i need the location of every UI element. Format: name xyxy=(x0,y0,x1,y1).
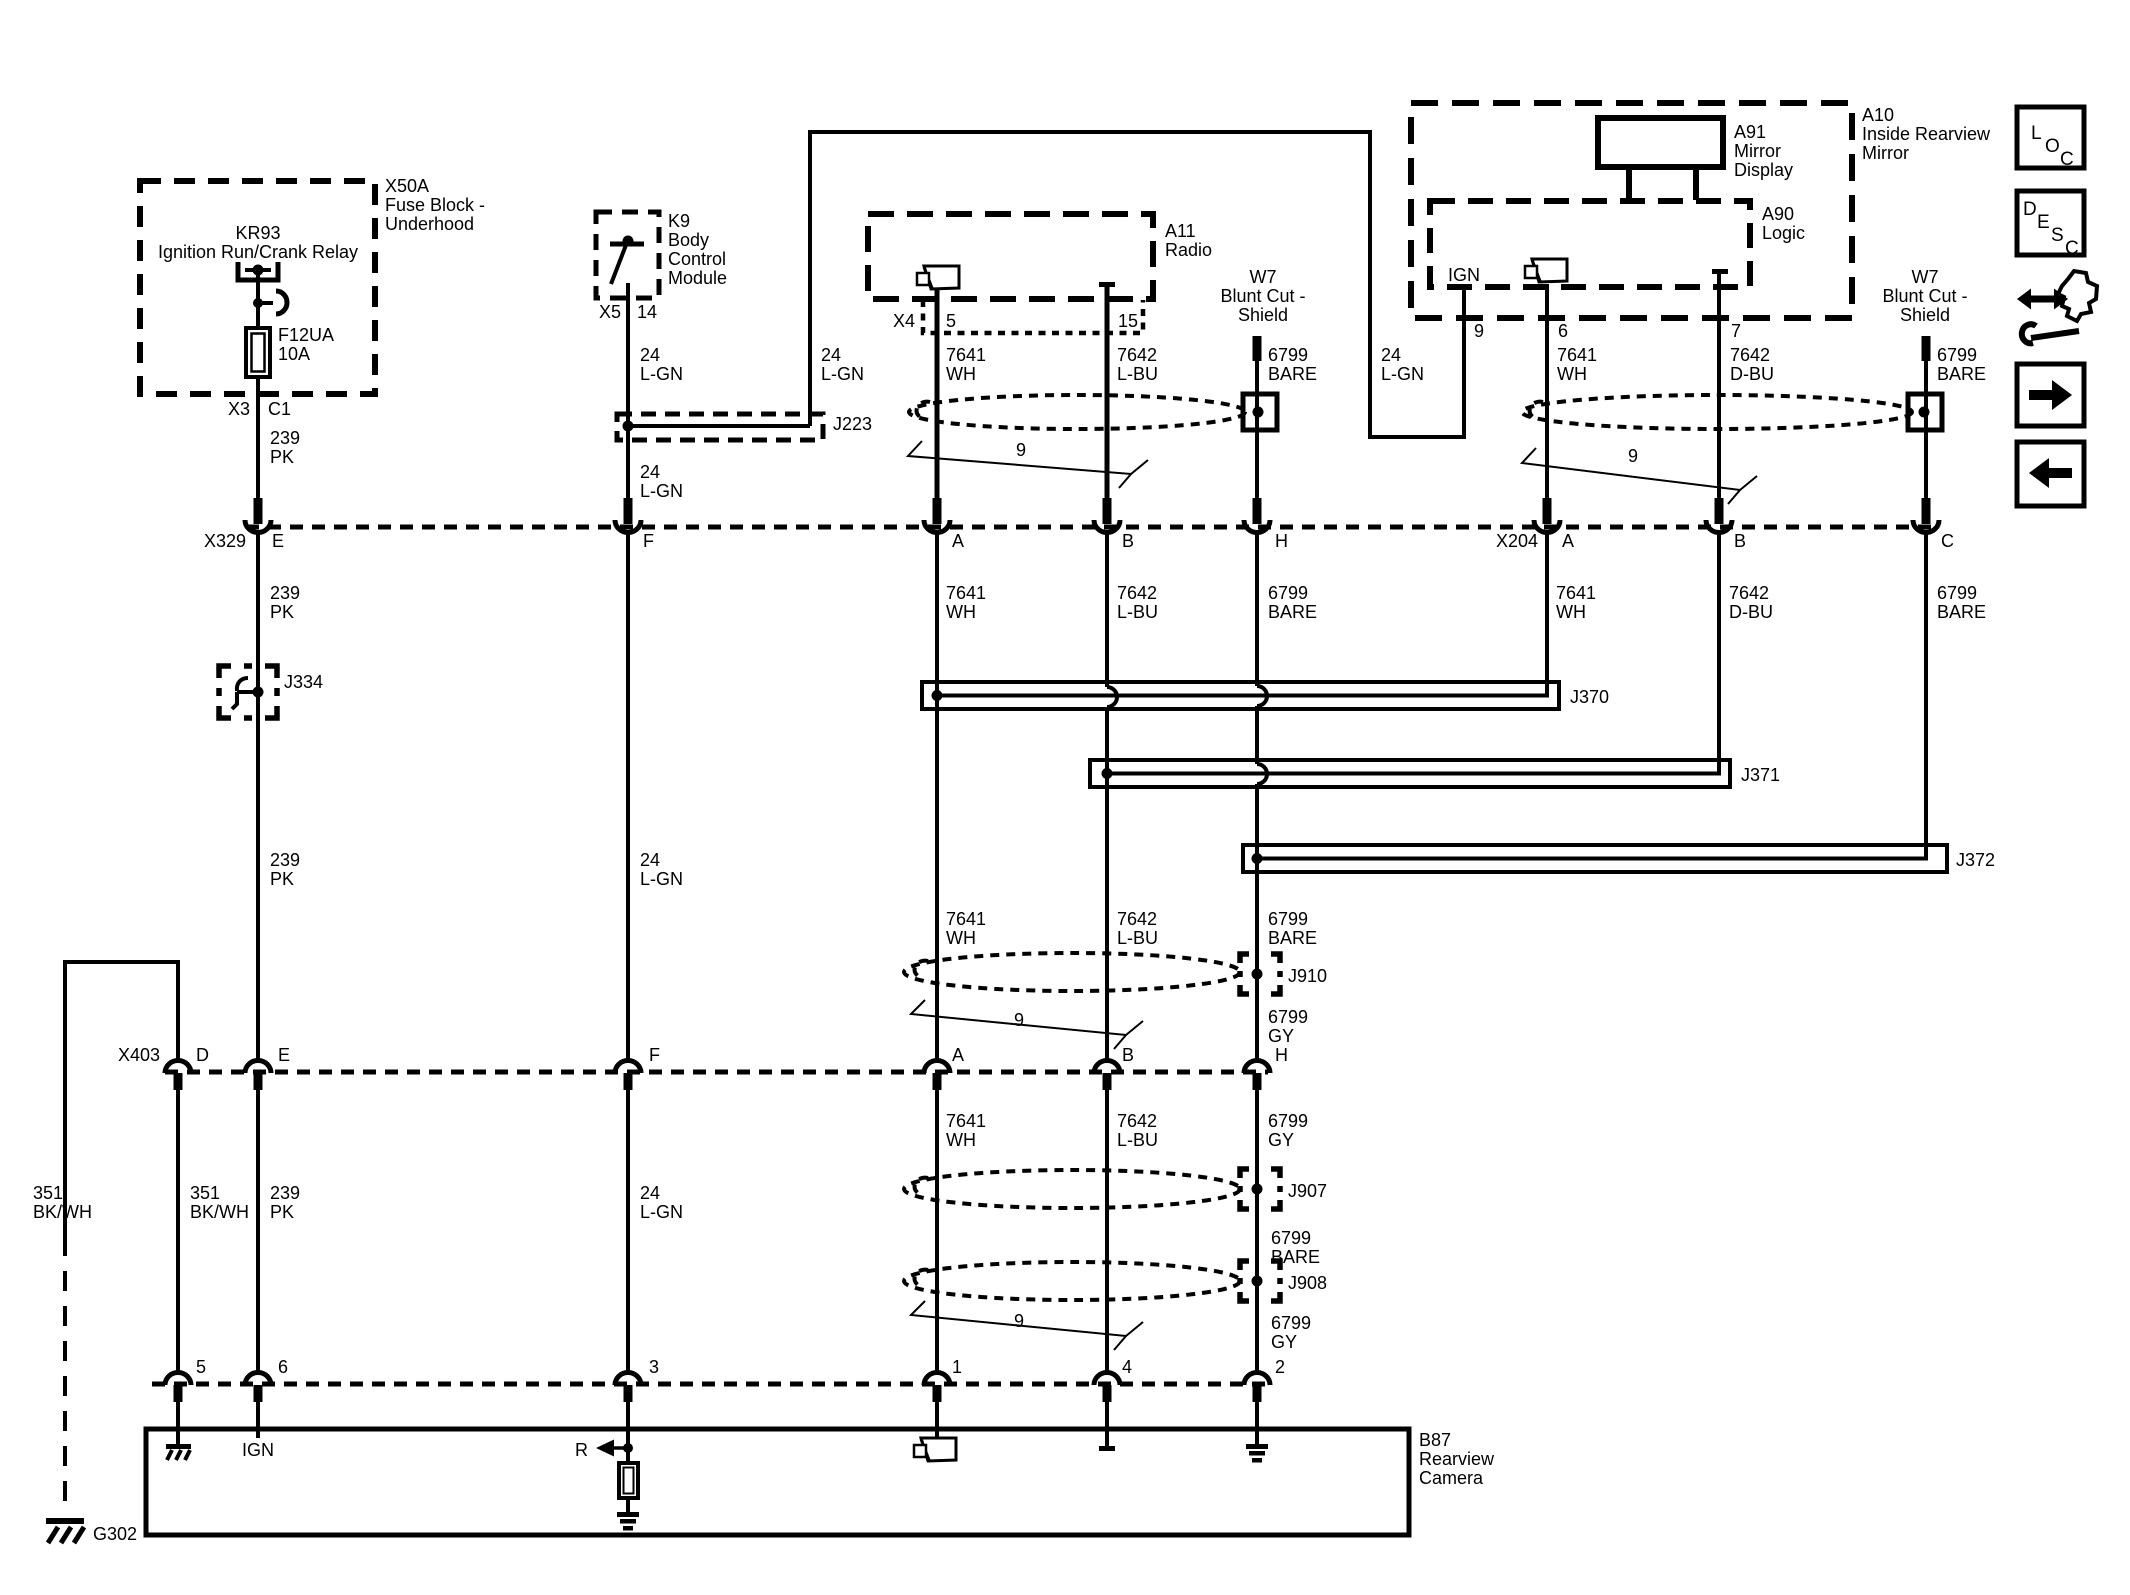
svg-text:E: E xyxy=(278,1045,290,1065)
svg-text:J910: J910 xyxy=(1288,966,1327,986)
wire pin6 into camera xyxy=(256,1400,260,1438)
svg-text:6799: 6799 xyxy=(1268,345,1308,365)
twisted pair marker 9 xyxy=(908,441,1148,488)
hop of wire H over J370 line xyxy=(1257,686,1267,706)
radio A11 dashed box xyxy=(868,214,1153,299)
wire X329-B down, hops J370 xyxy=(1105,533,1109,1060)
svg-text:Blunt Cut -: Blunt Cut - xyxy=(1882,286,1967,306)
svg-text:D-BU: D-BU xyxy=(1730,364,1774,384)
camera pin 5 xyxy=(165,1373,191,1403)
svg-text:Inside Rearview: Inside Rearview xyxy=(1862,124,1991,144)
svg-text:L-BU: L-BU xyxy=(1117,1130,1158,1150)
X403 pin H xyxy=(1244,1061,1270,1091)
wire J223 branch xyxy=(628,424,810,428)
svg-text:KR93: KR93 xyxy=(235,223,280,243)
svg-text:X403: X403 xyxy=(118,1045,160,1065)
wire X204-B to J371 xyxy=(1717,533,1721,774)
junction dot R xyxy=(623,1443,633,1453)
wire fuse to X329-E xyxy=(256,377,260,499)
X204 pin B xyxy=(1706,498,1732,533)
svg-text:24: 24 xyxy=(1381,345,1401,365)
X204 pin A xyxy=(1534,498,1560,533)
svg-text:D: D xyxy=(2023,199,2037,220)
J334 splice symbol xyxy=(237,690,258,694)
svg-text:24: 24 xyxy=(821,345,841,365)
svg-text:J372: J372 xyxy=(1956,850,1995,870)
svg-text:X3: X3 xyxy=(228,399,250,419)
X329 pin A xyxy=(924,498,950,533)
shield drain box left xyxy=(1243,394,1277,430)
W7 blunt cut stub left xyxy=(1253,336,1262,361)
svg-text:BARE: BARE xyxy=(1268,364,1317,384)
wire W7 to X329-H xyxy=(1255,360,1259,499)
svg-text:7641: 7641 xyxy=(946,909,986,929)
splice J910 corner box xyxy=(1240,954,1280,994)
svg-text:B87: B87 xyxy=(1419,1430,1451,1450)
svg-text:X204: X204 xyxy=(1496,531,1538,551)
camera symbol in A90 xyxy=(1525,259,1567,282)
svg-text:A10: A10 xyxy=(1862,105,1894,125)
wire pin4 into camera xyxy=(1105,1400,1109,1446)
svg-text:J223: J223 xyxy=(833,414,872,434)
X403 pin E xyxy=(245,1061,271,1091)
svg-text:Blunt Cut -: Blunt Cut - xyxy=(1220,286,1305,306)
svg-text:L-GN: L-GN xyxy=(640,869,683,889)
splice J907 corner box xyxy=(1240,1169,1280,1209)
rearview camera B87 box xyxy=(146,1429,1409,1535)
svg-text:24: 24 xyxy=(640,345,660,365)
svg-text:7642: 7642 xyxy=(1730,345,1770,365)
svg-text:Ignition Run/Crank Relay: Ignition Run/Crank Relay xyxy=(158,242,358,262)
camera symbol in radio xyxy=(917,266,959,289)
fuse F12UA xyxy=(246,328,270,377)
display pedestal legs xyxy=(1626,167,1632,200)
wire pin5 into camera xyxy=(176,1400,180,1444)
connector row X403 dashed line xyxy=(165,1070,1268,1075)
minus symbol in radio xyxy=(1099,282,1115,287)
svg-text:B: B xyxy=(1122,1045,1134,1065)
X329 pin E xyxy=(245,498,271,533)
svg-text:Radio: Radio xyxy=(1165,240,1212,260)
relay KR93 contact bracket xyxy=(238,262,278,280)
X403 pin B xyxy=(1094,1061,1120,1091)
svg-text:L-GN: L-GN xyxy=(640,1202,683,1222)
camera pin 4 xyxy=(1094,1373,1120,1403)
minus symbol in A90 xyxy=(1712,269,1728,274)
shield drain dot right xyxy=(1919,407,1930,418)
left ground branch wire xyxy=(65,962,178,1236)
wire top run J223 to A90 IGN xyxy=(810,132,1464,437)
twisted pair marker 9 xyxy=(911,1000,1143,1049)
svg-text:C: C xyxy=(1941,531,1954,551)
svg-text:F12UA: F12UA xyxy=(278,325,334,345)
icon arrow right box xyxy=(2017,364,2084,426)
wire A90 pin7 to X204-B xyxy=(1717,274,1721,499)
svg-text:Rearview: Rearview xyxy=(1419,1449,1495,1469)
ground symbol below resistor xyxy=(617,1512,639,1531)
svg-text:6: 6 xyxy=(1558,321,1568,341)
icon LOC box xyxy=(2017,107,2084,170)
svg-text:J908: J908 xyxy=(1288,1273,1327,1293)
svg-text:1: 1 xyxy=(952,1357,962,1377)
svg-text:C: C xyxy=(2065,238,2079,259)
wire X403-B to camera pin4 xyxy=(1105,1089,1109,1373)
svg-text:6799: 6799 xyxy=(1271,1228,1311,1248)
X403 pin D xyxy=(165,1061,191,1091)
ground symbol camera pin5 xyxy=(166,1444,191,1460)
svg-text:BARE: BARE xyxy=(1937,602,1986,622)
wire X403-D to camera pin5 xyxy=(176,1089,180,1373)
svg-text:W7: W7 xyxy=(1912,267,1939,287)
minus symbol in camera xyxy=(1099,1446,1115,1451)
svg-text:H: H xyxy=(1275,1045,1288,1065)
shield ellipse right xyxy=(1522,395,1912,429)
svg-text:J334: J334 xyxy=(284,672,323,692)
icon DESC box xyxy=(2017,191,2084,259)
camera pin 2 xyxy=(1244,1373,1270,1403)
svg-text:BARE: BARE xyxy=(1268,928,1317,948)
X329 pin B xyxy=(1094,498,1120,533)
svg-text:W7: W7 xyxy=(1250,267,1277,287)
camera connector row dashed line xyxy=(152,1382,1268,1387)
hop of wire H over J371 line xyxy=(1257,764,1267,784)
svg-text:Display: Display xyxy=(1734,160,1793,180)
svg-text:7642: 7642 xyxy=(1729,583,1769,603)
svg-text:L-BU: L-BU xyxy=(1117,364,1158,384)
svg-text:351: 351 xyxy=(190,1183,220,1203)
J334 dot xyxy=(253,687,264,698)
K9 switch contact bar xyxy=(610,242,644,247)
wire X329-E to X403-E xyxy=(256,533,260,1060)
svg-text:B: B xyxy=(1122,531,1134,551)
svg-text:7642: 7642 xyxy=(1117,1111,1157,1131)
splice pack J370 xyxy=(922,682,1559,709)
svg-text:2: 2 xyxy=(1275,1357,1285,1377)
svg-text:239: 239 xyxy=(270,850,300,870)
wire X329-F to X403-F xyxy=(626,533,630,1060)
svg-text:Mirror: Mirror xyxy=(1862,143,1909,163)
R arrow in camera xyxy=(596,1440,614,1457)
splice pack J371 xyxy=(1090,760,1730,787)
svg-text:X329: X329 xyxy=(204,531,246,551)
relay contact bar xyxy=(245,268,271,272)
svg-text:F: F xyxy=(643,531,654,551)
svg-text:WH: WH xyxy=(946,928,976,948)
svg-text:7641: 7641 xyxy=(1557,345,1597,365)
svg-text:F: F xyxy=(649,1045,660,1065)
svg-text:24: 24 xyxy=(640,462,660,482)
svg-text:WH: WH xyxy=(946,602,976,622)
svg-text:E: E xyxy=(2037,212,2050,233)
icon vehicle view with arrows and wrench xyxy=(2017,271,2097,343)
svg-text:6799: 6799 xyxy=(1271,1313,1311,1333)
icon arrow left box xyxy=(2017,442,2084,506)
X329 pin F xyxy=(615,498,641,533)
svg-text:6799: 6799 xyxy=(1268,583,1308,603)
svg-text:GY: GY xyxy=(1271,1332,1297,1352)
svg-text:D: D xyxy=(196,1045,209,1065)
svg-text:Module: Module xyxy=(668,268,727,288)
twisted pair marker 9 lower xyxy=(911,1301,1143,1350)
svg-text:BK/WH: BK/WH xyxy=(33,1202,92,1222)
ground G302 symbol xyxy=(46,1518,84,1524)
svg-text:6799: 6799 xyxy=(1937,583,1977,603)
svg-text:PK: PK xyxy=(270,869,294,889)
twisted pair marker 9 right xyxy=(1522,448,1757,504)
svg-text:R: R xyxy=(575,1440,588,1460)
svg-text:Underhood: Underhood xyxy=(385,214,474,234)
wire X329-A down through J370 to X403-A xyxy=(935,533,939,1060)
svg-text:A91: A91 xyxy=(1734,122,1766,142)
svg-text:7641: 7641 xyxy=(1556,583,1596,603)
svg-text:7641: 7641 xyxy=(946,345,986,365)
svg-text:L-BU: L-BU xyxy=(1117,602,1158,622)
svg-text:15: 15 xyxy=(1118,311,1138,331)
svg-text:239: 239 xyxy=(270,583,300,603)
svg-text:PK: PK xyxy=(270,602,294,622)
svg-text:A11: A11 xyxy=(1165,221,1196,241)
svg-text:6799: 6799 xyxy=(1268,1111,1308,1131)
shield ellipse left xyxy=(909,395,1245,429)
svg-text:BARE: BARE xyxy=(1268,602,1317,622)
relay contact pivot dot xyxy=(253,265,264,276)
svg-text:BK/WH: BK/WH xyxy=(190,1202,249,1222)
svg-text:WH: WH xyxy=(946,1130,976,1150)
shield ellipse J908 xyxy=(904,1262,1240,1300)
svg-text:7641: 7641 xyxy=(946,583,986,603)
svg-text:A90: A90 xyxy=(1762,204,1794,224)
svg-text:BARE: BARE xyxy=(1937,364,1986,384)
svg-text:24: 24 xyxy=(640,850,660,870)
splice J908 corner box xyxy=(1240,1261,1280,1301)
svg-text:IGN: IGN xyxy=(1448,265,1480,285)
camera pin 3 xyxy=(615,1373,641,1403)
radio pin 15 wire xyxy=(1105,287,1110,499)
junction dot J223 xyxy=(623,421,634,432)
svg-text:Camera: Camera xyxy=(1419,1468,1484,1488)
shield ellipse curl xyxy=(917,402,930,419)
relay NO contact stub xyxy=(258,301,273,305)
svg-text:A: A xyxy=(952,1045,964,1065)
wire W7 right to X204-C xyxy=(1924,360,1928,499)
svg-text:K9: K9 xyxy=(668,211,690,231)
svg-text:3: 3 xyxy=(649,1357,659,1377)
svg-text:L-GN: L-GN xyxy=(640,364,683,384)
svg-text:L-GN: L-GN xyxy=(821,364,864,384)
shield ellipse J907 xyxy=(904,1170,1240,1208)
X329 pin H xyxy=(1244,498,1270,533)
svg-text:239: 239 xyxy=(270,428,300,448)
svg-text:7642: 7642 xyxy=(1117,583,1157,603)
connector row X329/X204 dashed line xyxy=(246,525,1938,530)
svg-text:L-GN: L-GN xyxy=(1381,364,1424,384)
svg-text:X4: X4 xyxy=(893,311,915,331)
svg-text:O: O xyxy=(2045,136,2060,157)
svg-text:B: B xyxy=(1734,531,1746,551)
svg-text:C1: C1 xyxy=(268,399,291,419)
svg-text:GY: GY xyxy=(1268,1026,1294,1046)
svg-text:L: L xyxy=(2031,123,2042,144)
splice pack J372 xyxy=(1243,845,1947,872)
svg-text:Body: Body xyxy=(668,230,709,250)
svg-text:Logic: Logic xyxy=(1762,223,1805,243)
resistor in camera xyxy=(619,1463,638,1498)
svg-text:WH: WH xyxy=(1557,364,1587,384)
svg-text:4: 4 xyxy=(1122,1357,1132,1377)
shield ellipse curl right xyxy=(1530,402,1543,419)
svg-text:Mirror: Mirror xyxy=(1734,141,1781,161)
svg-text:L-GN: L-GN xyxy=(640,481,683,501)
svg-text:C: C xyxy=(2060,149,2074,170)
X403 pin A xyxy=(924,1061,950,1091)
shield drain dot xyxy=(1253,407,1264,418)
shield ellipse J910 xyxy=(904,953,1240,991)
svg-text:Shield: Shield xyxy=(1900,305,1950,325)
svg-text:IGN: IGN xyxy=(242,1440,274,1460)
svg-text:351: 351 xyxy=(33,1183,63,1203)
svg-text:J907: J907 xyxy=(1288,1181,1327,1201)
svg-text:Fuse Block -: Fuse Block - xyxy=(385,195,485,215)
wire X329-H down, hops J370 J371 xyxy=(1255,533,1259,1060)
svg-text:14: 14 xyxy=(637,302,657,322)
wire X403-F to camera pin3 xyxy=(626,1089,630,1373)
svg-text:7642: 7642 xyxy=(1117,345,1157,365)
svg-text:A: A xyxy=(1562,531,1574,551)
svg-text:E: E xyxy=(272,531,284,551)
svg-text:10A: 10A xyxy=(278,344,310,364)
svg-text:9: 9 xyxy=(1474,321,1484,341)
svg-text:5: 5 xyxy=(196,1357,206,1377)
wire pin3 into camera xyxy=(626,1400,630,1463)
wire X403-E to camera pin6 xyxy=(256,1089,260,1373)
wire relay to fuse xyxy=(256,270,260,328)
svg-text:X5: X5 xyxy=(599,302,621,322)
svg-text:9: 9 xyxy=(1016,440,1026,460)
wire A90 pin6 to X204-A xyxy=(1545,284,1549,499)
svg-text:6799: 6799 xyxy=(1268,909,1308,929)
svg-text:PK: PK xyxy=(270,447,294,467)
X403 pin F xyxy=(615,1061,641,1091)
ground symbol camera pin2 xyxy=(1246,1444,1268,1463)
svg-text:24: 24 xyxy=(640,1183,660,1203)
hop of wire B over J370 line xyxy=(1107,687,1117,707)
wire pin1 into camera xyxy=(935,1400,939,1440)
svg-text:WH: WH xyxy=(1556,602,1586,622)
svg-text:D-BU: D-BU xyxy=(1729,602,1773,622)
dashed ground wire to G302 xyxy=(63,1236,67,1514)
X204 pin C xyxy=(1913,498,1939,533)
svg-text:9: 9 xyxy=(1628,446,1638,466)
wire X204-C to J372 xyxy=(1924,533,1928,858)
svg-text:GY: GY xyxy=(1268,1130,1294,1150)
svg-text:X50A: X50A xyxy=(385,176,429,196)
svg-text:A: A xyxy=(952,531,964,551)
wire X204-A to J370 xyxy=(1545,533,1549,696)
K9 switch blade xyxy=(611,245,626,284)
relay NO contact hook xyxy=(276,291,287,314)
svg-text:PK: PK xyxy=(270,1202,294,1222)
svg-text:7641: 7641 xyxy=(946,1111,986,1131)
splice J334 box xyxy=(219,666,277,718)
wire X403-H to camera pin2 xyxy=(1255,1089,1259,1373)
logic A90 dashed box xyxy=(1430,201,1750,287)
svg-text:J371: J371 xyxy=(1741,765,1780,785)
svg-text:9: 9 xyxy=(1014,1010,1024,1030)
svg-text:WH: WH xyxy=(946,364,976,384)
svg-text:239: 239 xyxy=(270,1183,300,1203)
svg-text:Control: Control xyxy=(668,249,726,269)
radio pin 5 wire xyxy=(935,290,940,499)
mirror A10 dashed box xyxy=(1411,103,1852,318)
svg-text:6: 6 xyxy=(278,1357,288,1377)
camera pin 1 xyxy=(924,1373,950,1403)
svg-text:Shield: Shield xyxy=(1238,305,1288,325)
K9 switch pivot dot xyxy=(623,236,634,247)
splice J223 dashed box xyxy=(617,414,823,440)
wire K9 to X329-F xyxy=(626,283,630,499)
svg-text:6799: 6799 xyxy=(1937,345,1977,365)
svg-text:J370: J370 xyxy=(1570,687,1609,707)
wire X403-A to camera pin1 xyxy=(935,1089,939,1373)
svg-text:7: 7 xyxy=(1731,321,1741,341)
svg-text:9: 9 xyxy=(1014,1311,1024,1331)
connector X4 dotted box xyxy=(923,300,1143,333)
camera symbol in B87 xyxy=(914,1438,956,1461)
relay junction dot xyxy=(253,298,263,308)
mirror display A91 xyxy=(1598,118,1723,167)
svg-text:7642: 7642 xyxy=(1117,909,1157,929)
wire resistor to ground xyxy=(626,1498,630,1514)
shield drain box right xyxy=(1908,394,1942,430)
svg-text:6799: 6799 xyxy=(1268,1007,1308,1027)
fuse block X50A dashed box xyxy=(140,181,375,394)
wire pin2 into camera xyxy=(1255,1400,1259,1445)
svg-text:H: H xyxy=(1275,531,1288,551)
svg-text:S: S xyxy=(2051,225,2064,246)
camera pin 6 xyxy=(245,1373,271,1403)
W7 blunt cut stub right xyxy=(1922,336,1931,361)
svg-text:5: 5 xyxy=(946,311,956,331)
svg-text:L-BU: L-BU xyxy=(1117,928,1158,948)
BCM K9 dashed box xyxy=(596,212,659,298)
svg-text:G302: G302 xyxy=(93,1524,137,1544)
